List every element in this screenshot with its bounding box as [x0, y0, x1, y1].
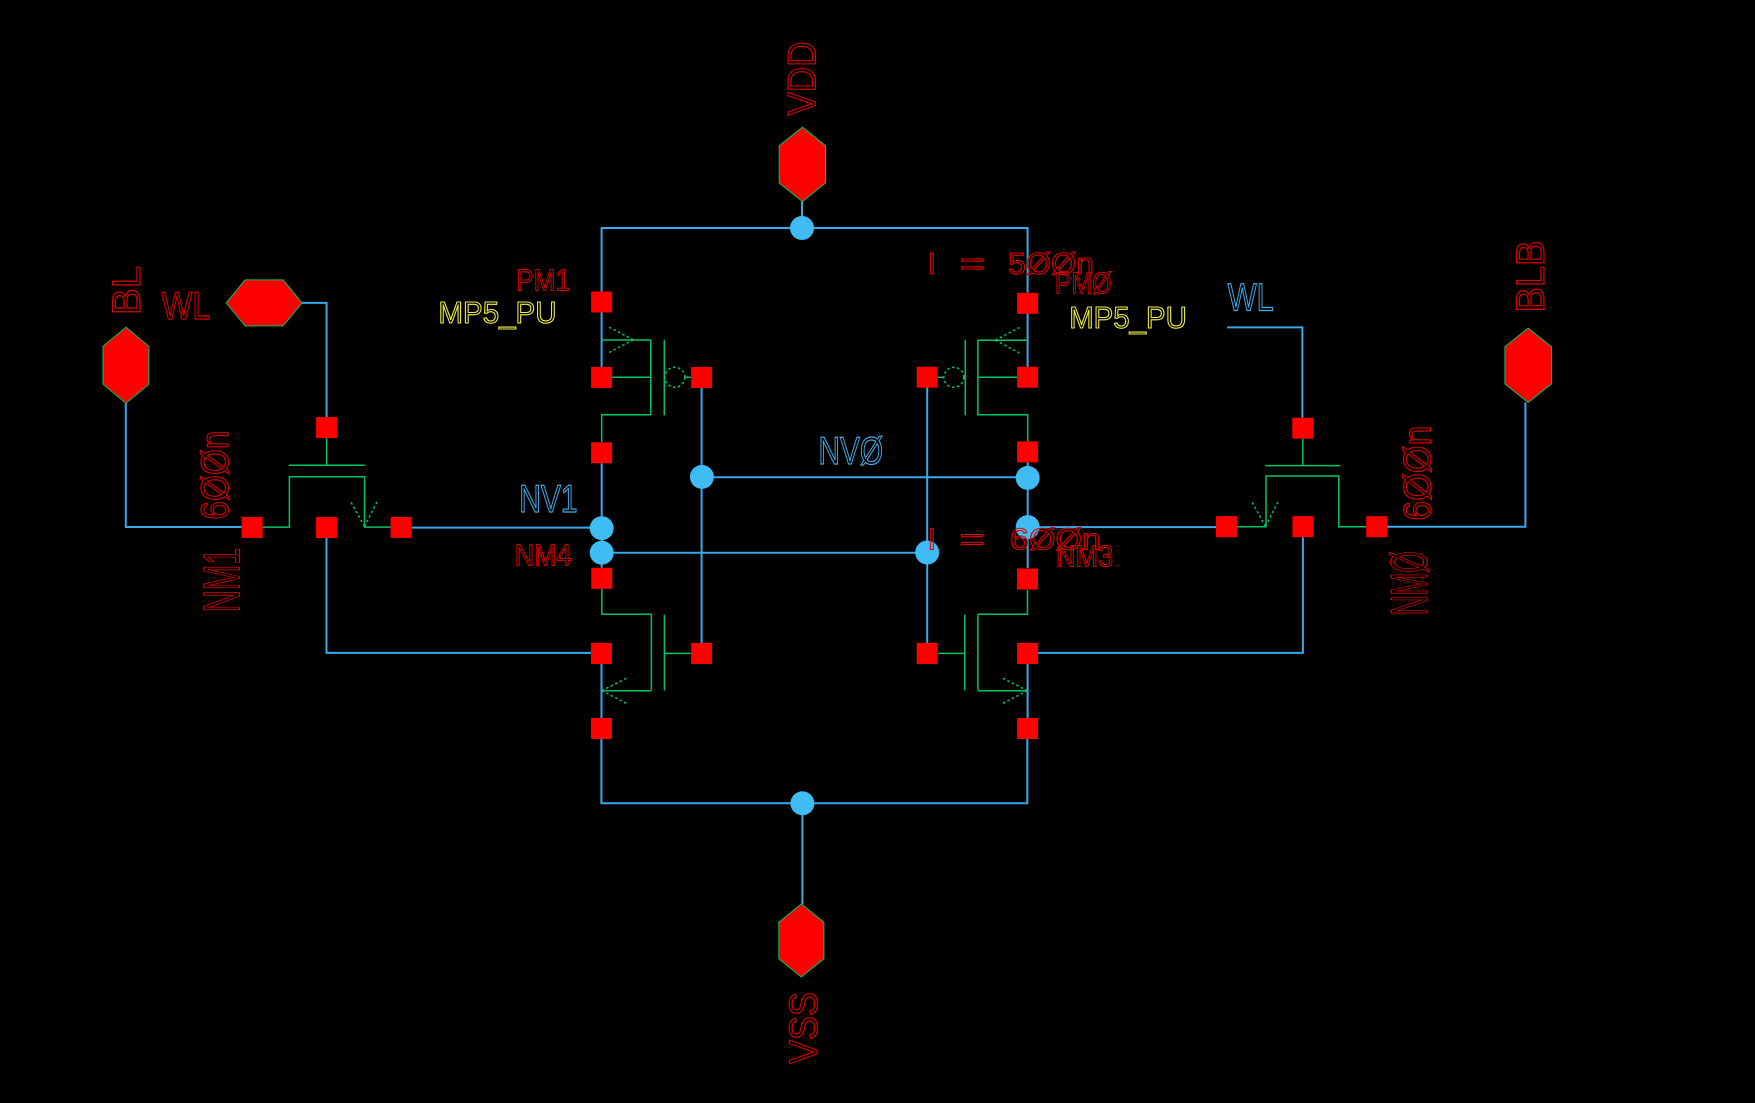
svg-text:5ØØn: 5ØØn [1008, 246, 1094, 281]
wire WL left to NM1 gate [302, 303, 327, 417]
svg-text:BL: BL [105, 266, 149, 315]
pin VDD hexagon [779, 127, 825, 201]
pin square NM1 bulk [316, 517, 337, 538]
transistor NM3 (right pull-down) [938, 590, 1028, 704]
wire VDD top rail [602, 228, 1028, 293]
wire VSS bottom rail [601, 739, 1027, 803]
svg-text:MP5_PU: MP5_PU [438, 295, 556, 330]
pin square NM4 source [591, 643, 612, 664]
transistor NM0 (right access) [1236, 439, 1367, 527]
node NV0 junction right upper [1016, 466, 1040, 490]
pin square NM3 gate [917, 643, 938, 664]
pin square PM1 source [591, 292, 612, 313]
node NV1 junction upper [590, 516, 614, 540]
pin square NM0 drain [1216, 516, 1237, 537]
svg-text:=: = [960, 521, 985, 556]
svg-text:VDD: VDD [781, 42, 825, 116]
wire NM0 to BLB [1387, 402, 1526, 526]
svg-text:VSS: VSS [782, 992, 826, 1064]
pin square PM0 bulk [1017, 367, 1038, 388]
pin square NM0 bulk [1292, 516, 1313, 537]
svg-text:6ØØn: 6ØØn [1397, 426, 1440, 521]
pin square PM1 gate [691, 367, 712, 388]
pin BL hexagon [103, 327, 149, 403]
wire node NV1 column (PM1 drain to NM4 drain) [601, 463, 603, 567]
pin square NM0 source [1366, 516, 1387, 537]
svg-text:WL: WL [162, 285, 211, 328]
wire node NV0 column (PM0 drain to NM3 drain) [1027, 462, 1029, 568]
pin WL hexagon [226, 280, 302, 326]
wire PM0 source-bulk segment [1027, 314, 1029, 367]
transistor NM1 (left access) [263, 438, 391, 527]
wire NM3 source segment [1027, 664, 1029, 718]
svg-text:6ØØn: 6ØØn [194, 431, 237, 520]
svg-text:=: = [960, 246, 985, 281]
pin square NM3 bulk [1017, 718, 1038, 739]
transistor PM0 (right pull-up) [937, 328, 1027, 442]
transistor PM1 (left pull-up) [602, 327, 691, 442]
svg-text:I: I [928, 521, 937, 556]
wire NM1 bulk to NM4 [327, 538, 591, 653]
wire NM4 source segment [601, 664, 603, 718]
svg-text:I: I [928, 246, 937, 281]
pin square PM0 source [1017, 293, 1038, 314]
wire BL to NM1 [126, 403, 242, 527]
pin square NM1 drain [391, 517, 412, 538]
transistor NM4 (left pull-down) [602, 589, 691, 704]
node NV0 junction right lower [1016, 515, 1040, 539]
wire NM0 bulk to NM3 [1038, 537, 1303, 653]
node NV1 junction lower [590, 541, 614, 565]
node NV0 junction left gate [690, 465, 714, 489]
svg-text:NMØ: NMØ [1381, 551, 1439, 615]
node VDD junction [790, 216, 814, 240]
svg-text:NV1: NV1 [519, 478, 577, 521]
wire node NV0 horizontal [702, 476, 1028, 478]
wire NV1 to NM1 [412, 527, 602, 529]
svg-text:WL: WL [1228, 277, 1274, 320]
wire VDD stub [801, 202, 803, 229]
wire left gate column (PM1 gate to NM4 gate) [701, 388, 703, 643]
pin square NM3 source [1017, 643, 1038, 664]
pin square PM0 drain [1017, 441, 1038, 462]
pin square PM1 bulk [591, 367, 612, 388]
wire VSS stub [801, 803, 803, 904]
pin BLB hexagon [1505, 328, 1552, 402]
pin square PM1 drain [591, 442, 612, 463]
pin square NM4 bulk [591, 718, 612, 739]
svg-text:NVØ: NVØ [819, 430, 884, 473]
node right gate junction [915, 541, 939, 565]
svg-text:NM4: NM4 [515, 538, 572, 573]
svg-text:PM1: PM1 [516, 262, 570, 297]
svg-text:BLB: BLB [1509, 241, 1553, 313]
svg-text:6ØØn: 6ØØn [1010, 521, 1101, 556]
pin VSS hexagon [779, 904, 824, 977]
pin square NM3 drain [1017, 569, 1038, 590]
wire right gate column (PM0 gate to NM3 gate) [926, 387, 928, 643]
pin square NM1 gate [316, 417, 337, 438]
pin square PM0 gate [917, 367, 938, 388]
pin square NM0 gate [1292, 418, 1313, 439]
wire WL right to NM0 gate [1227, 327, 1302, 417]
pin square NM1 source [242, 517, 263, 538]
node VSS junction [790, 791, 814, 815]
wire NV1 cross-couple to right gate [602, 552, 928, 554]
svg-text:MP5_PU: MP5_PU [1069, 300, 1187, 335]
pin square NM4 gate [691, 643, 712, 664]
wire PM1 source-bulk segment [601, 313, 603, 368]
wire NV0 to NM0 [1028, 526, 1217, 528]
pin square NM4 drain [591, 568, 612, 589]
svg-text:NM1: NM1 [194, 548, 252, 613]
